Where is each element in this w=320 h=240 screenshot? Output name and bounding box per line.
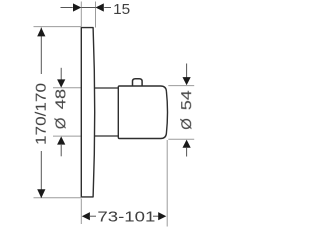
escutcheon plate side profile <box>81 28 94 197</box>
dimension 73-101: left arrow (points left) <box>82 212 90 220</box>
dimension 15: left arrow (points right) <box>73 3 81 11</box>
dimension Ø48: upper tail <box>60 68 62 81</box>
extension line wall bottom vertical (x=81.3) <box>80 199 82 225</box>
extension line sleeve bottom (y=136.1) <box>53 135 81 137</box>
dimension Ø48: top arrow (points down) <box>57 79 65 87</box>
dimension 170/170: top arrow (points up) <box>37 28 45 37</box>
dimension 15: right arrow (points left) <box>96 3 104 11</box>
dimension 170/170: lower line segment <box>40 151 42 198</box>
svg-text:54: 54 <box>178 90 195 110</box>
extension line sleeve top (y=87.8) <box>53 87 81 89</box>
svg-text:73-101: 73-101 <box>97 208 155 225</box>
extension line top-left of plate (x=81.3) <box>80 2 82 27</box>
extension line plate bottom (y=197.8) <box>34 197 82 199</box>
svg-text:170/170: 170/170 <box>33 83 50 145</box>
dimension Ø54: lower tail <box>186 147 188 156</box>
dimension 73-101: right arrow (points right) <box>158 212 166 220</box>
dimension Ø54: top arrow (points down) <box>183 77 191 85</box>
dimension 15: leader to label <box>104 7 111 9</box>
sleeve bottom line (Ø48) <box>94 135 118 137</box>
dimension Ø54: bottom arrow (points up) <box>183 140 191 148</box>
extension line handle top (y=85.6) <box>168 85 194 87</box>
extension line top-right of plate front (x=95.5) <box>95 2 97 28</box>
svg-text:Ø: Ø <box>52 117 69 129</box>
dimension Ø54: upper tail <box>186 64 188 78</box>
dimension 170/170: bottom arrow (points down) <box>37 189 45 198</box>
svg-text:48: 48 <box>52 89 69 110</box>
thermostat handle body <box>118 86 167 139</box>
dimension 73-101: right line segment <box>153 215 159 217</box>
extension line handle bottom (y=139.2) <box>168 138 194 140</box>
dimension Ø48: lower tail <box>60 144 62 156</box>
svg-text:Ø: Ø <box>178 118 195 130</box>
svg-text:15: 15 <box>113 1 130 18</box>
dimension 15: tail line <box>61 7 73 9</box>
dimension 170/170: upper line segment <box>40 28 42 75</box>
extension line handle front vertical (x=167.2) <box>166 140 168 227</box>
dimension Ø48: bottom arrow (points up) <box>57 136 65 144</box>
sleeve top line (Ø48) <box>94 87 118 89</box>
dimension 73-101: left line segment <box>89 215 96 217</box>
dimension 15: line between extension lines <box>81 7 95 9</box>
extension line plate top (y=26.6) <box>34 26 82 28</box>
safety-stop tab on handle top <box>133 79 143 86</box>
